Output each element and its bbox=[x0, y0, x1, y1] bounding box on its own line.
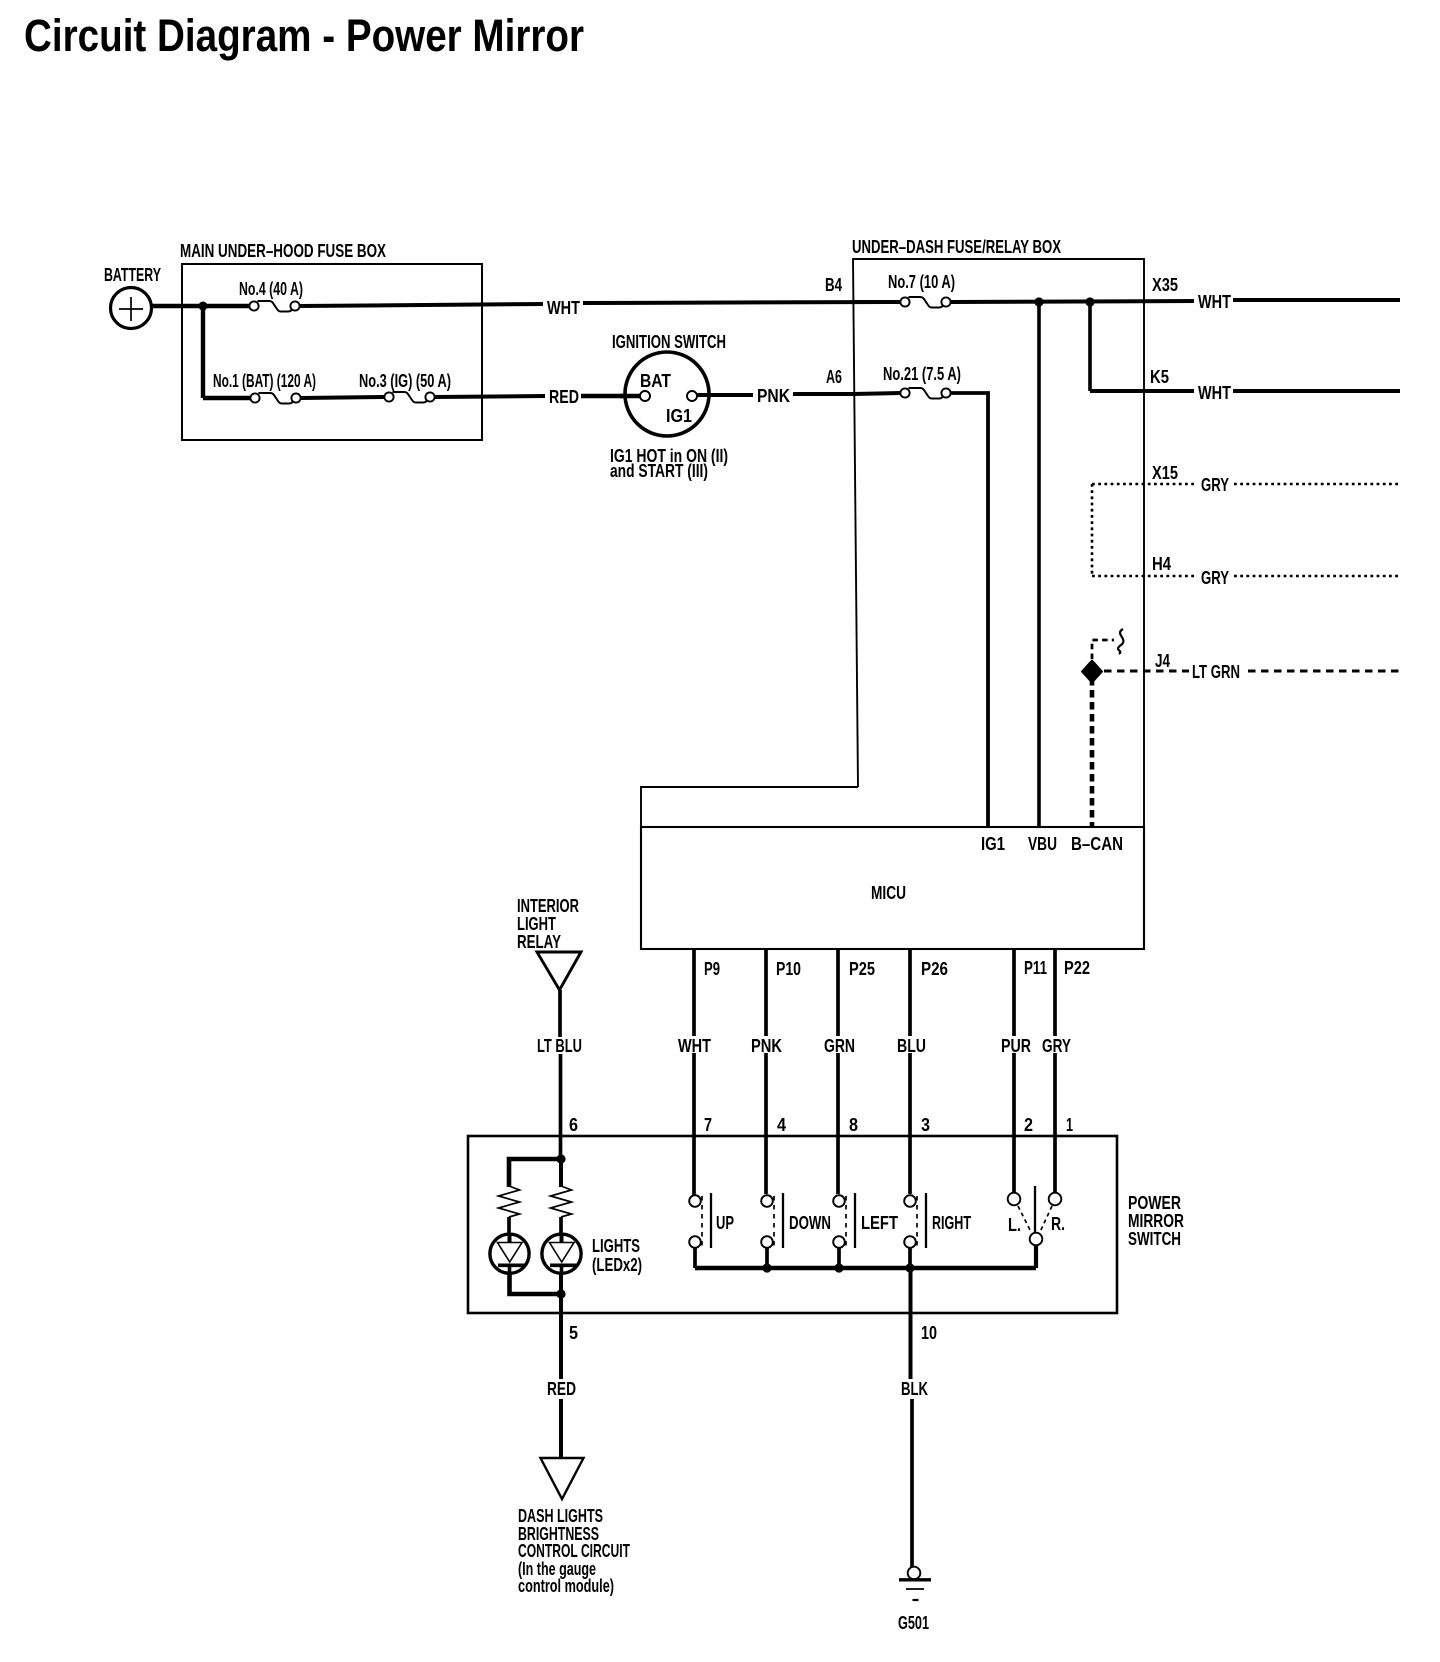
fuse No.21 bbox=[900, 388, 950, 399]
wire P26 bbox=[908, 949, 912, 1194]
arrow to dash lights circuit bbox=[541, 1458, 584, 1499]
svg-text:GRY: GRY bbox=[1201, 568, 1229, 588]
svg-text:P26: P26 bbox=[921, 959, 948, 979]
label PNK wire bbox=[749, 1036, 785, 1053]
svg-text:B4: B4 bbox=[825, 275, 842, 295]
svg-text:LIGHTS: LIGHTS bbox=[592, 1236, 640, 1256]
wire RED to arrow bbox=[559, 1399, 563, 1457]
svg-text:VBU: VBU bbox=[1028, 834, 1057, 854]
svg-text:LIGHT: LIGHT bbox=[517, 914, 556, 934]
node battery junction bbox=[199, 302, 208, 311]
wire PNK to under-dash box A6 bbox=[791, 392, 853, 396]
svg-text:BLK: BLK bbox=[901, 1379, 928, 1399]
pin IG1 bbox=[687, 391, 697, 401]
svg-text:UNDER–DASH FUSE/RELAY BOX: UNDER–DASH FUSE/RELAY BOX bbox=[852, 237, 1061, 257]
wire X35 WHT out bbox=[1233, 298, 1400, 302]
wire LT BLU to switch bbox=[559, 1053, 563, 1159]
svg-text:1: 1 bbox=[1066, 1115, 1073, 1135]
svg-text:IG1: IG1 bbox=[666, 406, 692, 426]
svg-text:L.: L. bbox=[1008, 1215, 1021, 1235]
switch LEFT bbox=[833, 1193, 898, 1248]
svg-text:LT GRN: LT GRN bbox=[1192, 662, 1240, 682]
svg-text:7: 7 bbox=[704, 1115, 712, 1135]
svg-text:PUR: PUR bbox=[1001, 1036, 1031, 1056]
svg-text:BAT: BAT bbox=[640, 371, 671, 391]
wire fuse No.3 to RED bbox=[435, 396, 546, 397]
wire P9 bbox=[692, 949, 696, 1195]
fuse No.7 bbox=[900, 297, 950, 308]
svg-text:INTERIOR: INTERIOR bbox=[517, 896, 579, 916]
wire LED1 down and right bbox=[510, 1273, 562, 1294]
wire P11 bbox=[1012, 949, 1016, 1192]
svg-text:No.3 (IG) (50 A): No.3 (IG) (50 A) bbox=[359, 371, 451, 391]
wire WHT to under-dash box B4 bbox=[580, 302, 901, 303]
wire X15 GRY dotted out bbox=[1234, 483, 1400, 486]
wire K5 vertical bbox=[1088, 302, 1092, 391]
svg-text:BATTERY: BATTERY bbox=[104, 265, 161, 285]
wire junction to fuse No.1 bbox=[203, 396, 252, 400]
svg-text:IGNITION SWITCH: IGNITION SWITCH bbox=[612, 332, 726, 352]
svg-text:PNK: PNK bbox=[751, 1036, 782, 1056]
wire DOWN to bus bbox=[765, 1248, 769, 1268]
svg-text:G501: G501 bbox=[898, 1613, 929, 1633]
wire B-CAN thick dashed vertical bbox=[1090, 678, 1095, 827]
wire L/R common to bus bbox=[1034, 1245, 1038, 1268]
node bus RIGHT bbox=[905, 1263, 914, 1272]
svg-text:GRY: GRY bbox=[1042, 1036, 1071, 1056]
fuse No.4 bbox=[249, 301, 299, 312]
node bus DOWN bbox=[762, 1263, 771, 1272]
svg-text:A6: A6 bbox=[826, 367, 842, 387]
wire UP to bus bbox=[693, 1248, 697, 1268]
svg-text:No.4 (40 A): No.4 (40 A) bbox=[239, 279, 303, 299]
wire common bus bbox=[695, 1266, 1036, 1270]
wire fuse No.7 to X35 bbox=[951, 301, 1196, 302]
ground G501 bbox=[899, 1567, 931, 1600]
label GRY wire bbox=[1040, 1036, 1073, 1053]
wire IG1 pin to PNK bbox=[697, 393, 755, 397]
svg-text:RED: RED bbox=[547, 1379, 576, 1399]
under-dash fuse/relay box outline bbox=[641, 259, 1144, 949]
svg-text:5: 5 bbox=[569, 1323, 578, 1343]
svg-text:MAIN UNDER–HOOD FUSE BOX: MAIN UNDER–HOOD FUSE BOX bbox=[180, 241, 386, 261]
svg-text:WHT: WHT bbox=[1198, 292, 1231, 312]
node J4 junction bbox=[1082, 661, 1102, 683]
label WHT X35 bbox=[1194, 292, 1235, 309]
node lights junction top bbox=[556, 1154, 565, 1163]
svg-text:PNK: PNK bbox=[757, 386, 790, 406]
battery BT1 bbox=[111, 288, 152, 329]
node junction K5 tap bbox=[1085, 297, 1094, 306]
wire R2 to LED2 bbox=[559, 1217, 563, 1236]
svg-text:GRY: GRY bbox=[1201, 475, 1229, 495]
svg-text:control module): control module) bbox=[518, 1576, 614, 1596]
svg-text:LT BLU: LT BLU bbox=[537, 1036, 582, 1056]
wire pin 5 out of box bbox=[559, 1294, 563, 1379]
wire dotted vertical X15 to H4 bbox=[1091, 484, 1094, 576]
svg-text:Circuit Diagram - Power Mirror: Circuit Diagram - Power Mirror bbox=[24, 10, 584, 61]
label LT BLU bbox=[534, 1037, 584, 1054]
svg-text:RELAY: RELAY bbox=[517, 932, 561, 952]
label PNK bbox=[753, 387, 793, 403]
main under-hood fuse box bbox=[182, 264, 482, 440]
svg-text:WHT: WHT bbox=[678, 1036, 711, 1056]
svg-text:4: 4 bbox=[777, 1115, 786, 1135]
wire P25 bbox=[836, 949, 840, 1194]
power mirror switch box bbox=[468, 1136, 1117, 1313]
svg-text:X15: X15 bbox=[1152, 463, 1178, 483]
wire junction down to right resistor bbox=[559, 1159, 563, 1187]
svg-text:P25: P25 bbox=[849, 959, 875, 979]
svg-text:RED: RED bbox=[549, 387, 579, 407]
svg-text:P9: P9 bbox=[704, 959, 720, 979]
resistor R2 bbox=[551, 1186, 572, 1217]
interior light relay symbol bbox=[537, 952, 581, 990]
svg-text:BLU: BLU bbox=[897, 1036, 926, 1056]
svg-text:WHT: WHT bbox=[1198, 383, 1231, 403]
switch UP bbox=[689, 1193, 734, 1248]
svg-text:H4: H4 bbox=[1152, 554, 1171, 574]
node junction VBU tap bbox=[1034, 297, 1043, 306]
ignition switch SW1 bbox=[625, 352, 709, 436]
svg-text:RIGHT: RIGHT bbox=[932, 1213, 971, 1233]
wire J4 LT GRN dashed out bbox=[1248, 670, 1400, 673]
wire RED to ignition switch BAT bbox=[579, 394, 641, 398]
wire H4 GRY dotted out bbox=[1234, 575, 1400, 578]
wire BLK to ground bbox=[910, 1399, 914, 1567]
pin BAT bbox=[640, 391, 650, 401]
wire fuse No.1 to fuse No.3 bbox=[301, 397, 385, 398]
wire junction down bbox=[201, 306, 205, 398]
wire pin 10 to ground bbox=[909, 1268, 913, 1379]
wire LEFT to bus bbox=[837, 1248, 841, 1268]
wire J4 LT GRN dashed inner bbox=[1104, 670, 1189, 673]
svg-text:GRN: GRN bbox=[824, 1036, 855, 1056]
MICU box bbox=[641, 827, 1144, 949]
wire VBU vertical bbox=[1037, 302, 1041, 827]
svg-text:(LEDx2): (LEDx2) bbox=[592, 1255, 642, 1275]
svg-text:3: 3 bbox=[921, 1115, 930, 1135]
svg-text:P22: P22 bbox=[1064, 958, 1090, 978]
svg-text:J4: J4 bbox=[1155, 651, 1170, 671]
fuse No.3 bbox=[384, 392, 434, 403]
label WHT K5 bbox=[1194, 383, 1235, 400]
wire fuse No.4 to WHT bbox=[300, 304, 546, 306]
svg-text:No.7 (10 A): No.7 (10 A) bbox=[888, 272, 955, 292]
svg-text:DASH LIGHTS: DASH LIGHTS bbox=[518, 1506, 603, 1526]
wire fuse No.21 to IG1 vertical bbox=[951, 393, 988, 827]
label WHT battery feed bbox=[543, 295, 583, 312]
svg-text:2: 2 bbox=[1024, 1115, 1033, 1135]
label BLU wire bbox=[895, 1036, 929, 1053]
svg-text:No.1 (BAT) (120 A): No.1 (BAT) (120 A) bbox=[213, 371, 316, 391]
wire P10 bbox=[764, 949, 768, 1194]
node bus LEFT bbox=[834, 1263, 843, 1272]
svg-text:CONTROL CIRCUIT: CONTROL CIRCUIT bbox=[518, 1541, 630, 1561]
wire X15 GRY dotted inner bbox=[1092, 483, 1196, 486]
wire R1 to LED1 bbox=[507, 1217, 511, 1236]
svg-text:P11: P11 bbox=[1024, 958, 1047, 978]
svg-text:IG1: IG1 bbox=[981, 834, 1005, 854]
switch L/R selector bbox=[1008, 1186, 1065, 1245]
label WHT wire bbox=[676, 1036, 713, 1053]
break squiggle bbox=[1118, 629, 1123, 654]
svg-text:MIRROR: MIRROR bbox=[1128, 1211, 1184, 1231]
label RED bbox=[545, 388, 581, 404]
svg-text:POWER: POWER bbox=[1128, 1193, 1181, 1213]
svg-text:B–CAN: B–CAN bbox=[1071, 834, 1123, 854]
svg-text:8: 8 bbox=[849, 1115, 858, 1135]
label PUR wire bbox=[999, 1036, 1033, 1053]
svg-text:P10: P10 bbox=[776, 959, 801, 979]
wire K5 horizontal bbox=[1090, 389, 1196, 393]
svg-text:R.: R. bbox=[1051, 1214, 1065, 1234]
svg-text:SWITCH: SWITCH bbox=[1128, 1229, 1181, 1249]
svg-text:No.21 (7.5 A): No.21 (7.5 A) bbox=[883, 364, 961, 384]
fuse No.1 bbox=[250, 393, 300, 404]
svg-text:MICU: MICU bbox=[871, 883, 906, 903]
svg-text:WHT: WHT bbox=[547, 298, 580, 318]
svg-text:LEFT: LEFT bbox=[861, 1213, 898, 1233]
switch RIGHT bbox=[904, 1193, 971, 1248]
wire H4 GRY dotted inner bbox=[1092, 575, 1196, 578]
wire LED2 down bbox=[559, 1273, 563, 1294]
switch DOWN bbox=[761, 1193, 831, 1248]
svg-text:X35: X35 bbox=[1152, 275, 1178, 295]
node lights junction bottom bbox=[556, 1289, 565, 1298]
svg-text:10: 10 bbox=[921, 1323, 937, 1343]
wire B4 into fuse No.7 bbox=[853, 300, 901, 304]
wire P22 bbox=[1053, 949, 1057, 1192]
wire battery to fuse box bbox=[151, 304, 250, 308]
svg-text:and START (III): and START (III) bbox=[610, 461, 708, 481]
label GRN wire bbox=[822, 1036, 858, 1053]
LED D1 bbox=[490, 1234, 529, 1273]
wire relay to LT BLU bbox=[558, 990, 562, 1037]
LED D2 bbox=[542, 1234, 581, 1273]
svg-text:6: 6 bbox=[569, 1115, 578, 1135]
svg-text:DOWN: DOWN bbox=[789, 1213, 831, 1233]
wire A6 into fuse No.21 bbox=[853, 393, 901, 394]
wire dashed stub up from J4 junction bbox=[1092, 640, 1114, 659]
svg-text:K5: K5 bbox=[1150, 367, 1169, 387]
svg-text:UP: UP bbox=[716, 1213, 734, 1233]
wire RIGHT to bus bbox=[908, 1248, 912, 1268]
wire K5 WHT out bbox=[1233, 389, 1400, 393]
wire into BAT pin bbox=[620, 394, 641, 398]
resistor R1 bbox=[499, 1186, 520, 1217]
wire junction to left resistor bbox=[509, 1159, 561, 1187]
